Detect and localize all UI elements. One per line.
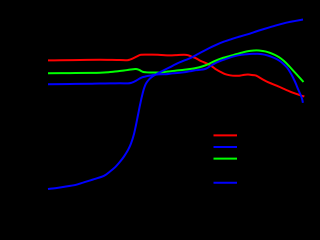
legend line blue [214, 146, 238, 148]
legend line red [214, 134, 238, 136]
curve green [48, 50, 304, 82]
curve red [48, 55, 304, 97]
legend line blue 2 [214, 182, 238, 184]
curve blue hump [48, 54, 303, 103]
curve blue sigmoid [48, 20, 303, 190]
legend line green [214, 158, 238, 160]
